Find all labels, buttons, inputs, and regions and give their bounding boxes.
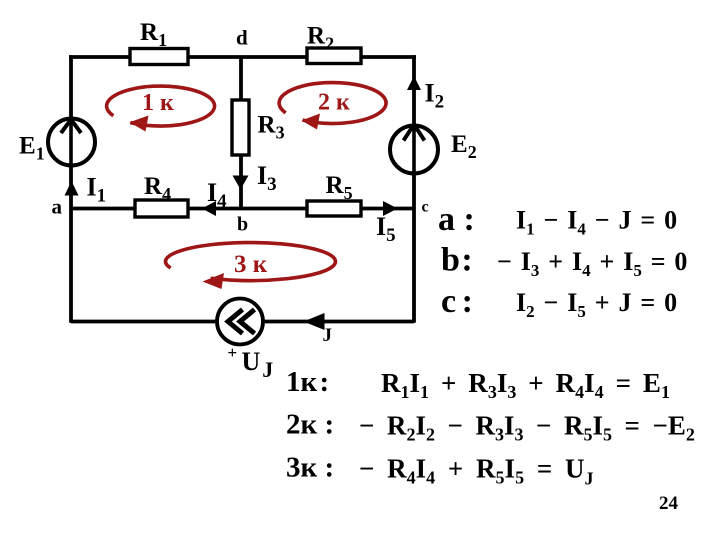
svg-text:1к :: 1к : [286,366,329,398]
svg-text:a: a [52,195,63,219]
svg-text:3к :: 3к : [286,452,334,484]
svg-text:3 к: 3 к [234,251,268,278]
svg-text:b: b [237,214,248,236]
svg-text:J: J [323,325,333,346]
svg-text:c :: c : [441,283,473,320]
svg-text:I2 − I5 + J = 0: I2 − I5 + J = 0 [516,288,677,321]
svg-text:24: 24 [659,493,679,514]
svg-text:2к :: 2к : [286,409,334,441]
svg-text:I1 − I4 − J = 0: I1 − I4 − J = 0 [516,206,677,239]
svg-text:− R4I4 + R5I5 = UJ: − R4I4 + R5I5 = UJ [359,454,593,489]
svg-text:b :: b : [441,242,473,279]
svg-text:2 к: 2 к [318,90,350,116]
svg-text:+: + [228,343,238,362]
svg-text:d: d [236,26,248,50]
svg-text:a :: a : [438,201,475,238]
svg-text:c: c [422,199,429,216]
svg-text:− I3 + I4 + I5 = 0: − I3 + I4 + I5 = 0 [497,247,687,280]
svg-text:1 к: 1 к [142,90,174,116]
